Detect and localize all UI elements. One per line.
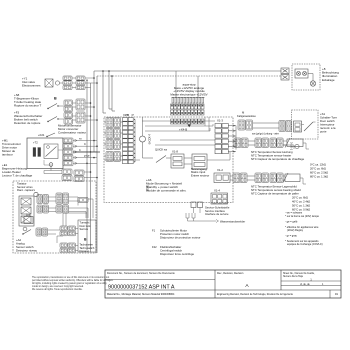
svg-text:1: 1 [310, 277, 312, 281]
svg-text:model or design, are reserved.: model or design, are reserved. Copyright… [32, 285, 84, 288]
svg-text:bl: bl [84, 144, 86, 146]
svg-text:gn/ge: gn/ge [84, 156, 90, 158]
svg-text:X1-2: X1-2 [217, 168, 223, 172]
svg-text:equipes de l'echange (COVLC): equipes de l'echange (COVLC) [287, 242, 323, 246]
svg-text:B: B [54, 97, 57, 101]
svg-text:- ws = schwarz: - ws = schwarz [285, 211, 303, 215]
svg-text:302A: 302A [146, 185, 150, 191]
svg-text:Detecteur niveau: Detecteur niveau [16, 249, 38, 253]
svg-text:NTC Capteur de temperature de: NTC Capteur de temperature de chauffage [251, 157, 305, 161]
svg-text:50°C ca. 1.3kΩ: 50°C ca. 1.3kΩ [292, 204, 310, 208]
svg-text:Engineering Revision, Revision: Engineering Revision, Revision de Techno… [217, 293, 293, 296]
svg-text:(+)CD-B: (+)CD-B [148, 134, 152, 144]
svg-text:of, de, de: of, de, de [300, 284, 310, 286]
svg-text:40°C ca. 2.4kΩ: 40°C ca. 2.4kΩ [292, 200, 310, 204]
svg-text:Interface de service: Interface de service [205, 212, 229, 216]
svg-text:F22: F22 [152, 245, 157, 249]
svg-text:0°C ca. 12kΩ: 0°C ca. 12kΩ [310, 163, 326, 167]
svg-text:Rev., Revision, Revision: Rev., Revision, Revision [217, 272, 244, 275]
svg-text:porte: porte [320, 130, 327, 134]
svg-text:Numero De la Hoja: Numero De la Hoja [283, 275, 304, 278]
svg-text:Disjoncteur de protection mote: Disjoncteur de protection moteur [160, 236, 200, 240]
svg-text:tambour: tambour [2, 153, 13, 157]
svg-text:The reproduction, transmission: The reproduction, transmission or use of… [32, 276, 109, 279]
svg-text:+T2: +T2 [33, 140, 38, 144]
svg-text:Entree secteur: Entree secteur [191, 173, 209, 177]
svg-text:20°C ca. 6kΩ: 20°C ca. 6kΩ [310, 167, 326, 171]
svg-text:X1-8: X1-8 [172, 150, 178, 154]
svg-text:Document No., Numero de docume: Document No., Numero de document, Numero… [107, 272, 175, 275]
svg-text:We reserve all rights. Toute r: We reserve all rights. Toute reproductio… [32, 288, 83, 291]
svg-text:Dynamo: Dynamo [80, 249, 90, 253]
svg-text:permitted without express writ: permitted without express written author… [32, 279, 114, 282]
svg-text:Module de commande et alim.: Module de commande et alim. [146, 188, 187, 192]
svg-text:gn: gn [132, 115, 135, 117]
svg-text:NTC Capteur de temperature de: NTC Capteur de temperature de palier [251, 192, 299, 196]
svg-text:F1: F1 [152, 229, 156, 233]
svg-text:* Seulement sur les appareils: * Seulement sur les appareils [285, 239, 319, 243]
svg-text:20°C ca. 6kΩ: 20°C ca. 6kΩ [292, 196, 308, 200]
svg-text:* sur la borne ws (20V) lampe: * sur la borne ws (20V) lampe [285, 214, 320, 218]
svg-text:+F21: +F21 [38, 133, 45, 137]
svg-text:Sheet No., Numero De Feuille,: Sheet No., Numero De Feuille, [283, 272, 315, 275]
svg-text:B: B [84, 238, 87, 242]
svg-text:ws: ws [79, 139, 83, 141]
svg-text:Material No., Montage Material: Material No., Montage Material, Numero M… [107, 293, 175, 296]
svg-text:Condensateur moteur: Condensateur moteur [58, 131, 86, 135]
svg-text:Serrure: Serrure [80, 227, 89, 231]
svg-text:Racc. capteurs: Racc. capteurs [17, 188, 36, 192]
svg-text:- gr = grau: - gr = grau [285, 234, 298, 238]
svg-text:X1-4: X1-4 [214, 189, 220, 193]
svg-text:sw (ge/gn) Leitung - wire: sw (ge/gn) Leitung - wire [252, 133, 279, 136]
svg-text:Wasserstandsmelder: Wasserstandsmelder [220, 219, 245, 223]
svg-text:80°C ca. 1.3kΩ: 80°C ca. 1.3kΩ [310, 175, 328, 179]
svg-text:- ge = gelb: - ge = gelb [285, 220, 298, 224]
svg-text:All rights, including rights c: All rights, including rights created by … [32, 282, 108, 285]
svg-text:* effective for appliances wir: * effective for appliances wire [285, 225, 319, 229]
svg-text:Eclairage: Eclairage [322, 78, 335, 82]
svg-text:60°C ca. 2.5kΩ: 60°C ca. 2.5kΩ [310, 171, 328, 175]
svg-text:9000000037152 ASP INT A: 9000000037152 ASP INT A [108, 284, 175, 290]
svg-text:Lud: Lud [26, 213, 31, 217]
svg-text:(20x2) Regley: (20x2) Regley [287, 228, 304, 232]
svg-text:X2-B: X2-B [123, 113, 129, 117]
svg-text:X1-3: X1-3 [217, 119, 223, 123]
svg-text:Lecteur T. de chauffage: Lecteur T. de chauffage [2, 174, 33, 178]
svg-text:Electrovannes: Electrovannes [22, 84, 41, 88]
svg-text:01: 01 [335, 292, 339, 296]
svg-text:Disjoncteur force centrifuge: Disjoncteur force centrifuge [160, 252, 194, 256]
svg-text:Detection de rupture: Detection de rupture [14, 121, 41, 125]
svg-text:QUICK ws: QUICK ws [155, 148, 168, 152]
svg-text:Kaltgeraetedose: Kaltgeraetedose [237, 114, 256, 118]
svg-text:Rupture du secteur T: Rupture du secteur T [14, 104, 41, 108]
svg-text:A: A [245, 283, 249, 289]
